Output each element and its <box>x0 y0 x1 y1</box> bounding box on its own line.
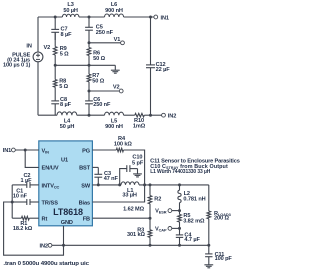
svg-text:INTVCC: INTVCC <box>42 183 60 189</box>
capacitor C7 <box>51 26 72 38</box>
svg-text:VESR: VESR <box>155 208 167 214</box>
svg-text:301 kΩ: 301 kΩ <box>127 232 145 238</box>
svg-text:L1 Würth 744031330 33 µH: L1 Würth 744031330 33 µH <box>150 169 210 175</box>
wire SW to L1 <box>92 184 121 186</box>
node mid row center <box>88 64 91 67</box>
wire ground branch <box>4 202 64 255</box>
port V_CAP <box>155 226 180 232</box>
svg-text:FB: FB <box>83 217 90 223</box>
svg-text:V2: V2 <box>44 45 51 51</box>
wire right rail upper <box>150 17 152 65</box>
inductor L6 <box>105 2 124 17</box>
wire R4 right + drop <box>124 150 145 185</box>
wire RLOAD3-bottom <box>208 219 210 246</box>
wire bottom rail mid <box>77 114 105 116</box>
wire top rail left segment <box>38 16 62 18</box>
port V2 <box>113 84 123 93</box>
node left rail C1 <box>11 201 14 204</box>
wire INTVcc lead <box>12 184 27 186</box>
resistor R3 <box>127 218 152 238</box>
node V2 <box>88 90 91 93</box>
port V_ESR <box>155 208 179 214</box>
svg-text:R2: R2 <box>154 197 161 203</box>
node RLOAD3 bottom <box>207 244 210 247</box>
wire IN1 to Vin pin <box>15 149 39 151</box>
wire R8-C8 <box>54 87 56 101</box>
svg-text:50 Ω: 50 Ω <box>93 56 105 62</box>
capacitor C5 <box>85 17 114 36</box>
node SW/C10 <box>118 183 121 186</box>
svg-text:5 Ω: 5 Ω <box>60 52 69 58</box>
wire FB <box>92 217 150 219</box>
svg-text:22 µF: 22 µF <box>156 67 171 73</box>
node IN1 branch <box>24 149 27 152</box>
node out/Bias <box>143 183 146 186</box>
capacitor C3 <box>94 167 118 182</box>
capacitor C12 <box>146 62 170 73</box>
voltage source V2 pulse <box>3 17 50 115</box>
svg-text:47 nF: 47 nF <box>104 176 119 182</box>
resistor R1 <box>13 216 33 232</box>
svg-text:1 µF: 1 µF <box>20 178 32 184</box>
svg-text:SW: SW <box>81 183 91 189</box>
wire C5-V1 node <box>88 30 90 43</box>
wire L5-R10 <box>124 114 135 116</box>
svg-text:VCAP: VCAP <box>155 226 167 232</box>
wire R5-Vcap <box>179 222 181 228</box>
svg-text:18.2 kΩ: 18.2 kΩ <box>13 226 33 232</box>
wire C2 to INTVcc pin <box>30 184 39 186</box>
wire left rail <box>11 185 13 218</box>
svg-text:900 nH: 900 nH <box>105 124 123 130</box>
svg-text:PG: PG <box>82 148 90 154</box>
wire to port IN2 top <box>151 114 162 116</box>
svg-text:0.781 nH: 0.781 nH <box>183 197 205 203</box>
svg-text:V1: V1 <box>114 37 121 43</box>
node Vcap <box>178 227 181 230</box>
resistor R5 <box>178 211 205 225</box>
wire R9-node <box>54 55 56 65</box>
port IN2 (top) <box>162 113 177 119</box>
wire R3-bottom <box>149 237 151 245</box>
svg-text:V2: V2 <box>113 84 120 90</box>
capacitor C6 <box>85 91 111 108</box>
wire C1 to TR/SS pin <box>30 201 39 203</box>
inductor L2 <box>178 185 206 203</box>
svg-text:IN2: IN2 <box>168 113 176 119</box>
wire C8-bottom rail <box>54 104 56 115</box>
resistor R4 <box>114 136 132 152</box>
resistor RLOAD3 <box>207 185 232 222</box>
svg-text:LT8618: LT8618 <box>53 207 83 217</box>
annotation line 2 <box>150 164 228 170</box>
wire C10 riser <box>120 169 127 185</box>
wire L1 to out row <box>139 184 209 186</box>
wire C3 to SW row <box>97 177 99 185</box>
capacitor C8 <box>51 97 71 108</box>
annotation line 3 <box>150 169 210 175</box>
wire R1 lead <box>12 217 21 219</box>
svg-text:50 µH: 50 µH <box>63 8 78 14</box>
wire IN2 to node <box>52 244 64 246</box>
wire C4-bottom <box>179 237 181 245</box>
wire right rail lower <box>150 68 152 116</box>
svg-text:33 µH: 33 µH <box>122 192 137 198</box>
wire PG to R4 <box>92 149 116 151</box>
svg-text:250 nF: 250 nF <box>93 102 111 108</box>
wire top rail middle segment <box>79 16 105 18</box>
resistor R9 <box>53 32 69 57</box>
node out/R2 <box>149 183 152 186</box>
port IN1 (bottom) <box>3 148 16 154</box>
node Vesr <box>178 209 181 212</box>
wire GND pin stub <box>63 226 65 246</box>
wire to port V2 <box>89 90 119 92</box>
port IN2 (bottom) <box>39 243 51 249</box>
wire branch to EN/UV <box>25 150 39 167</box>
node GND junction <box>62 244 65 247</box>
node bottom rail center <box>88 114 91 117</box>
svg-text:IN: IN <box>26 44 31 50</box>
inductor L1 <box>121 182 139 199</box>
svg-text:.tran 0 5000u 4900u startup ui: .tran 0 5000u 4900u startup uic <box>3 261 89 267</box>
node R3 bottom <box>149 244 152 247</box>
resistor R2 <box>123 185 161 213</box>
wire bottom rail left <box>38 114 57 116</box>
node C4 bottom <box>178 244 181 247</box>
node bottom right <box>149 114 152 117</box>
ground C11 <box>204 257 213 268</box>
svg-text:1mΩ: 1mΩ <box>133 123 146 129</box>
annotation line 1 <box>150 159 240 165</box>
inductor L3 <box>62 2 79 17</box>
op IC U1 LT8618 body <box>39 141 93 226</box>
capacitor C1 <box>13 189 30 205</box>
capacitor C4 <box>176 228 201 243</box>
svg-text:8 µF: 8 µF <box>60 102 72 108</box>
svg-text:100 pF: 100 pF <box>215 256 233 262</box>
wire to port V1 <box>89 42 121 44</box>
inductor L5 <box>105 112 124 130</box>
wire R2-FB <box>149 204 151 218</box>
wire R6-node <box>88 56 90 66</box>
node FB <box>149 217 152 220</box>
capacitor C2 <box>20 173 32 188</box>
node out/L2 <box>178 183 181 186</box>
wire top rail right segment <box>124 16 154 18</box>
node top rail / C5 <box>88 16 91 19</box>
inductor L4 <box>57 112 77 130</box>
svg-text:5 Ω: 5 Ω <box>59 84 68 90</box>
svg-text:TR/SS: TR/SS <box>42 201 59 207</box>
ground top circuit <box>111 65 120 73</box>
wire BST lead <box>92 166 98 168</box>
wire C7-R9 <box>54 32 56 40</box>
svg-text:Rt: Rt <box>42 217 48 223</box>
svg-text:U1: U1 <box>61 158 68 164</box>
svg-text:100 kΩ: 100 kΩ <box>114 141 132 147</box>
svg-text:50 Ω: 50 Ω <box>92 78 104 84</box>
svg-text:IN1: IN1 <box>3 148 11 154</box>
wire C1 lead <box>12 201 27 203</box>
node SW/C3 <box>97 183 100 186</box>
svg-text:GND: GND <box>61 220 73 226</box>
svg-text:1.62 MΩ: 1.62 MΩ <box>123 206 145 212</box>
svg-text:250 nF: 250 nF <box>96 30 114 36</box>
wire R10-node <box>144 114 150 116</box>
ground C10 <box>130 169 142 177</box>
svg-text:IN2: IN2 <box>39 243 47 249</box>
port IN1 (top) <box>154 15 169 21</box>
svg-text:5 pF: 5 pF <box>132 160 144 166</box>
svg-text:BST: BST <box>79 165 91 171</box>
svg-text:Bias: Bias <box>79 201 90 207</box>
svg-text:900 nH: 900 nH <box>105 8 123 14</box>
wire mid row <box>55 64 115 66</box>
svg-text:200 Ω: 200 Ω <box>214 216 229 222</box>
svg-text:3.82 mΩ: 3.82 mΩ <box>183 219 205 225</box>
wire bottom rail (buck) <box>64 244 209 246</box>
svg-text:10 nF: 10 nF <box>13 194 28 200</box>
resistor R10 <box>133 113 146 129</box>
svg-text:50 µH: 50 µH <box>60 124 75 130</box>
wire R7-V2 node <box>88 82 90 91</box>
svg-text:IN1: IN1 <box>161 15 169 21</box>
wire Bias <box>92 185 144 202</box>
wire C6-bottom rail <box>88 104 90 115</box>
svg-text:8 µF: 8 µF <box>61 32 73 38</box>
node top rail / C7 <box>54 16 57 19</box>
wire L2-Vesr <box>179 203 181 211</box>
wire R1 to Rt pin <box>29 217 39 219</box>
capacitor C10 <box>127 155 144 172</box>
resistor R6 <box>87 43 105 62</box>
node mid row left <box>54 64 57 67</box>
svg-text:EN/UV: EN/UV <box>42 165 59 171</box>
port V1 <box>114 37 125 45</box>
wire C7 lead <box>54 17 56 29</box>
resistor R7 <box>87 65 105 84</box>
node V1 <box>88 41 91 44</box>
spice directive <box>3 261 89 267</box>
resistor R8 <box>53 65 68 90</box>
svg-text:4.7 µF: 4.7 µF <box>184 237 200 243</box>
capacitor C11 <box>205 245 232 262</box>
node IN1 top <box>149 16 152 19</box>
svg-text:100 µs 0 1): 100 µs 0 1) <box>3 62 31 68</box>
svg-text:VIN: VIN <box>42 148 50 154</box>
